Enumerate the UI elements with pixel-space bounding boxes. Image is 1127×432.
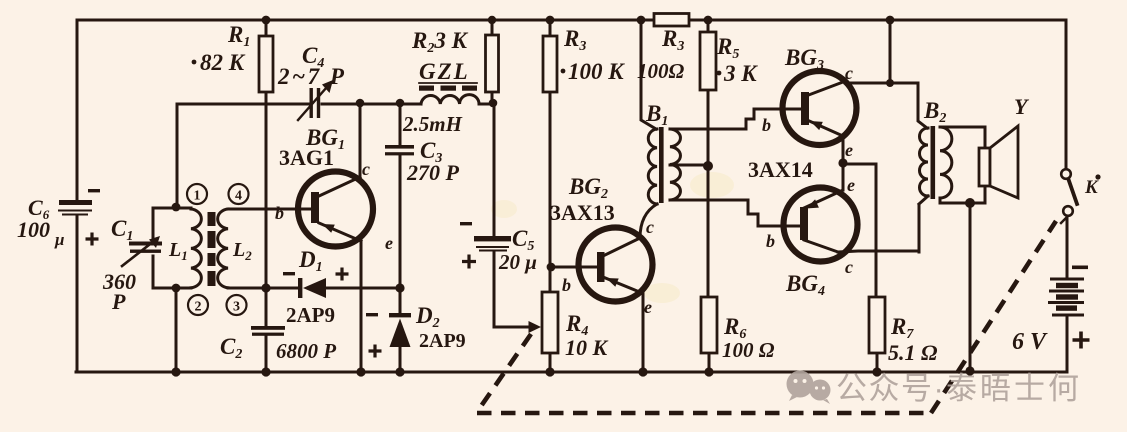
svg-text:3AX13: 3AX13 [550, 200, 615, 225]
svg-text:100: 100 [17, 217, 50, 242]
svg-text:P: P [111, 289, 126, 314]
svg-text:6800 P: 6800 P [276, 339, 336, 363]
svg-text:270 P: 270 P [406, 160, 460, 185]
svg-text:b: b [275, 203, 284, 223]
svg-text:100Ω: 100Ω [637, 59, 685, 83]
svg-text:10 K: 10 K [565, 335, 609, 360]
svg-text:20 μ: 20 μ [498, 250, 537, 274]
svg-text:b: b [762, 115, 771, 135]
svg-text:GZL: GZL [419, 59, 470, 84]
svg-text:2AP9: 2AP9 [286, 303, 335, 327]
svg-text:6 V: 6 V [1012, 329, 1048, 355]
svg-text:c: c [362, 159, 370, 179]
svg-text:2AP9: 2AP9 [419, 330, 466, 352]
svg-text:泰晤士何: 泰晤士何 [946, 371, 1082, 406]
svg-text:3: 3 [233, 300, 240, 315]
svg-text:1: 1 [194, 189, 201, 204]
svg-text:3AX14: 3AX14 [748, 157, 813, 182]
svg-text:c: c [646, 217, 654, 237]
svg-text:e: e [847, 175, 855, 195]
svg-text:100 K: 100 K [568, 59, 625, 84]
svg-text:c: c [845, 63, 853, 83]
svg-text:μ: μ [54, 230, 64, 249]
svg-text:4: 4 [235, 189, 242, 204]
svg-text:82 K: 82 K [200, 50, 246, 75]
svg-text:e: e [845, 140, 853, 160]
svg-text:3 K: 3 K [723, 61, 758, 86]
svg-text:K: K [1084, 177, 1099, 198]
svg-text:R23 K: R23 K [411, 28, 469, 56]
svg-text:2~7 P: 2~7 P [277, 64, 346, 89]
svg-text:公众号·: 公众号· [836, 371, 945, 406]
svg-text:b: b [562, 275, 571, 295]
svg-text:100 Ω: 100 Ω [722, 338, 775, 362]
svg-text:5.1 Ω: 5.1 Ω [888, 340, 938, 365]
svg-text:2: 2 [195, 300, 202, 315]
svg-text:2.5mH: 2.5mH [402, 112, 463, 136]
svg-text:e: e [385, 233, 393, 253]
svg-text:e: e [644, 297, 652, 317]
svg-text:b: b [766, 231, 775, 251]
svg-text:c: c [845, 257, 853, 277]
svg-text:3AG1: 3AG1 [279, 145, 334, 170]
